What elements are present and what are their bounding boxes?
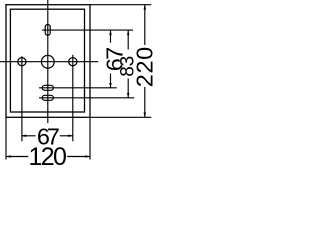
left hole <box>18 58 26 66</box>
upper slot extension line <box>39 87 117 89</box>
top slot extension line <box>42 29 133 31</box>
vertical centerline <box>47 0 49 123</box>
lower slot extension line <box>39 97 134 99</box>
dimension 67 vertical arrows <box>109 30 112 35</box>
upper bottom slot <box>42 85 53 90</box>
right hole <box>69 58 77 66</box>
dimension 83 line <box>127 30 129 49</box>
dimension 120 arrows <box>6 155 11 158</box>
center hole <box>41 55 54 68</box>
plate outer outline <box>6 5 90 118</box>
dimension 220 arrows <box>144 5 147 10</box>
top edge extension right <box>90 4 151 6</box>
svg-text:220: 220 <box>132 47 158 88</box>
right edge extension down <box>89 117 91 159</box>
dimension 67 horizontal arrows <box>21 135 26 138</box>
dimension 220 line <box>144 5 146 45</box>
left hole extension line <box>21 56 23 141</box>
top slot hole <box>45 25 50 36</box>
bottom edge extension right <box>90 116 151 118</box>
left edge extension down <box>5 117 7 159</box>
plate inner outline <box>10 9 84 112</box>
svg-text:120: 120 <box>29 143 67 169</box>
right hole extension line <box>72 55 74 142</box>
dimension 67 horizontal line <box>21 135 35 137</box>
dimension 83 arrows <box>127 30 130 35</box>
lower bottom slot <box>42 95 53 100</box>
horizontal centerline <box>0 61 98 63</box>
dimension 120 line <box>6 156 28 158</box>
dimension 67 vertical line <box>110 30 112 43</box>
